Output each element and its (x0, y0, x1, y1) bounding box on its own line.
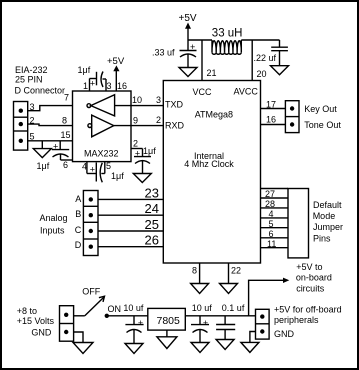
svg-text:1μf: 1μf (37, 161, 50, 171)
svg-text:+: + (203, 318, 208, 328)
svg-text:.22 uf: .22 uf (254, 53, 277, 63)
svg-text:+: + (90, 164, 95, 174)
svg-text:MAX232: MAX232 (84, 149, 119, 159)
ground at C3 (133, 174, 151, 183)
svg-text:circuits: circuits (296, 284, 325, 294)
svg-text:10 uf: 10 uf (123, 303, 144, 313)
+5V supply at MAX232.16 (107, 56, 125, 91)
wire GND pin 22 (228, 263, 230, 284)
svg-text:6: 6 (269, 229, 274, 239)
svg-text:1μf: 1μf (143, 146, 156, 156)
svg-text:10 uf: 10 uf (192, 303, 213, 313)
svg-text:21: 21 (207, 68, 217, 78)
ground at pin 8 (191, 284, 209, 294)
connector J5 power in (60, 306, 74, 342)
svg-text:7805: 7805 (157, 315, 181, 327)
svg-text:Jumper: Jumper (313, 222, 343, 232)
capacitor C6 .22 uf (254, 40, 288, 66)
svg-text:+: + (135, 148, 140, 158)
wire J1.3 to MAX232.7 (28, 106, 73, 111)
svg-text:4: 4 (82, 162, 87, 172)
svg-text:24: 24 (145, 201, 159, 216)
wire +5V riser to on-board (249, 280, 284, 316)
svg-text:B: B (75, 209, 81, 219)
wire J1.5 to MAX232.15 (28, 140, 73, 142)
svg-text:+15 Volts: +15 Volts (17, 316, 55, 326)
connector J3 jumper block (288, 189, 309, 258)
ground at J1.5 (33, 141, 51, 158)
label EIA-232 25 PIN D Connector (15, 65, 66, 96)
wire B to pin 24 (98, 214, 163, 216)
ground at power in (73, 343, 93, 354)
svg-text:27: 27 (265, 189, 275, 199)
connector J6 off-board (256, 309, 270, 339)
svg-text:Default: Default (313, 200, 342, 210)
buffer T1 (points left) (87, 95, 115, 116)
jumper wires pins 27 28 4 5 6 11 (261, 189, 289, 248)
svg-text:+8 to: +8 to (17, 306, 37, 316)
svg-text:on-board: on-board (296, 273, 332, 283)
wire T1 out (115, 105, 131, 107)
svg-text:20: 20 (257, 69, 267, 79)
wire rail right of inductor (241, 39, 279, 41)
svg-text:2: 2 (133, 139, 138, 149)
svg-text:16: 16 (117, 81, 127, 91)
svg-text:Pins: Pins (313, 233, 331, 243)
wire power to switch (74, 315, 85, 317)
svg-text:Analog: Analog (40, 213, 68, 223)
switch S1 (85, 296, 105, 316)
svg-text:GND: GND (31, 327, 52, 337)
svg-text:+: + (190, 42, 195, 52)
wire 7805 out rail (185, 315, 255, 317)
label Analog Inputs (40, 213, 68, 236)
capacitor C5 .33 uf (152, 40, 197, 68)
wire GND pin 8 (199, 263, 201, 284)
ground at 7805 (157, 337, 177, 349)
svg-text:3: 3 (107, 81, 112, 91)
ground at C6 (271, 66, 289, 75)
svg-text:+: + (90, 79, 95, 89)
+5V supply main (179, 13, 197, 40)
svg-text:+: + (53, 142, 58, 152)
svg-text:6: 6 (63, 160, 68, 170)
svg-text:2: 2 (156, 115, 161, 125)
svg-text:ATMega8: ATMega8 (195, 109, 233, 119)
svg-text:4 Mhz Clock: 4 Mhz Clock (184, 159, 234, 169)
node ON (105, 314, 109, 318)
svg-text:4: 4 (269, 209, 274, 219)
IC U2 ATMega8 (163, 81, 260, 264)
svg-text:25 PIN: 25 PIN (15, 75, 43, 85)
ground at C7 (125, 344, 143, 354)
wire switch to 7805 (107, 315, 148, 317)
svg-text:1μf: 1μf (78, 65, 91, 75)
capacitor C3 1uf (pin 2 right) (131, 146, 156, 174)
wire AVCC pin 20 (251, 40, 253, 81)
svg-text:GND: GND (274, 329, 295, 339)
svg-text:ON: ON (108, 304, 122, 314)
svg-text:5: 5 (106, 161, 111, 171)
ground at pin 22 (220, 284, 238, 294)
capacitor C7 10 uf (123, 303, 144, 344)
regulator U3 7805 (148, 308, 186, 330)
ground at C9 (216, 340, 234, 350)
svg-text:10: 10 (132, 95, 142, 105)
wire T2 out (114, 125, 131, 127)
svg-text:EIA-232: EIA-232 (15, 65, 48, 75)
wire 7805 GND (166, 330, 168, 337)
svg-text:17: 17 (266, 100, 276, 110)
label +5V for off-board peripherals (274, 305, 342, 339)
svg-text:16: 16 (266, 115, 276, 125)
svg-text:C: C (75, 225, 82, 235)
wire TXD (131, 105, 163, 107)
svg-text:AVCC: AVCC (234, 87, 259, 97)
buffer T2 (points right) (88, 115, 114, 137)
wire RXD (131, 125, 163, 127)
wire VCC pin 21 (201, 40, 203, 81)
wire power GND (74, 332, 83, 343)
svg-text:Tone Out: Tone Out (304, 120, 341, 130)
svg-text:Key Out: Key Out (304, 104, 337, 114)
svg-text:8: 8 (192, 266, 197, 276)
label Default Mode Jumper Pins (313, 200, 343, 244)
svg-text:RXD: RXD (165, 121, 185, 131)
svg-text:33 uH: 33 uH (212, 28, 243, 40)
capacitor C4 1uf (pin15/6) (37, 141, 73, 171)
svg-text:28: 28 (265, 199, 275, 209)
wire pin 16 (261, 124, 286, 126)
svg-text:TXD: TXD (165, 100, 184, 110)
inductor L1 33 uH (212, 28, 243, 55)
capacitor C2 1uf (pins 4-5) (87, 162, 124, 183)
ground at C5 (179, 68, 197, 77)
wire J1.2 to MAX232.8 (28, 124, 73, 126)
label +8 to +15 Volts GND (17, 306, 55, 337)
svg-text:+5V for off-board: +5V for off-board (274, 305, 342, 315)
connector J2 Key/Tone (285, 101, 299, 133)
svg-text:22: 22 (231, 266, 241, 276)
svg-text:+5V: +5V (179, 13, 197, 24)
svg-text:5: 5 (269, 219, 274, 229)
wire pin 17 (261, 108, 286, 110)
ground at J6 (241, 342, 259, 352)
svg-text:1: 1 (83, 81, 88, 91)
svg-text:3: 3 (156, 95, 161, 105)
svg-text:23: 23 (145, 186, 159, 201)
svg-text:8: 8 (62, 116, 67, 126)
wire +5V rail (188, 39, 212, 41)
capacitor C1 1uf (pins 1-3) (78, 65, 107, 91)
svg-text:peripherals: peripherals (274, 315, 319, 325)
svg-text:+: + (138, 318, 143, 328)
svg-text:Inputs: Inputs (40, 226, 65, 236)
wire D to pin 26 (98, 246, 163, 248)
wire C to pin 25 (98, 230, 163, 232)
arrow to on-board circuits (283, 278, 289, 283)
svg-text:1μf: 1μf (111, 171, 124, 181)
svg-text:25: 25 (145, 217, 159, 232)
svg-text:15: 15 (61, 130, 71, 140)
svg-text:+5V: +5V (107, 56, 125, 67)
connector J4 analog (83, 191, 98, 256)
svg-text:.33 uf: .33 uf (152, 48, 175, 58)
svg-text:26: 26 (145, 233, 159, 248)
svg-text:+5V to: +5V to (296, 262, 322, 272)
svg-text:D Connector: D Connector (15, 86, 66, 96)
svg-text:11: 11 (267, 239, 276, 249)
wire J6 GND (250, 332, 256, 343)
label +5V to on-board circuits (296, 262, 332, 294)
wire A to pin 23 (98, 198, 163, 200)
capacitor C8 10 uf (191, 303, 212, 343)
connector J1 (DB25) (14, 102, 28, 151)
IC U1 MAX232 (73, 91, 132, 162)
svg-text:VCC: VCC (193, 87, 213, 97)
svg-text:7: 7 (64, 93, 69, 103)
svg-text:9: 9 (133, 116, 138, 126)
svg-text:5: 5 (30, 132, 35, 142)
svg-text:D: D (75, 240, 82, 250)
svg-text:0.1 uf: 0.1 uf (222, 303, 245, 313)
ground at C8 (191, 343, 209, 353)
svg-text:A: A (75, 194, 81, 204)
svg-text:Mode: Mode (313, 211, 336, 221)
svg-text:OFF: OFF (82, 287, 100, 297)
capacitor C9 0.1 uf (216, 303, 245, 340)
